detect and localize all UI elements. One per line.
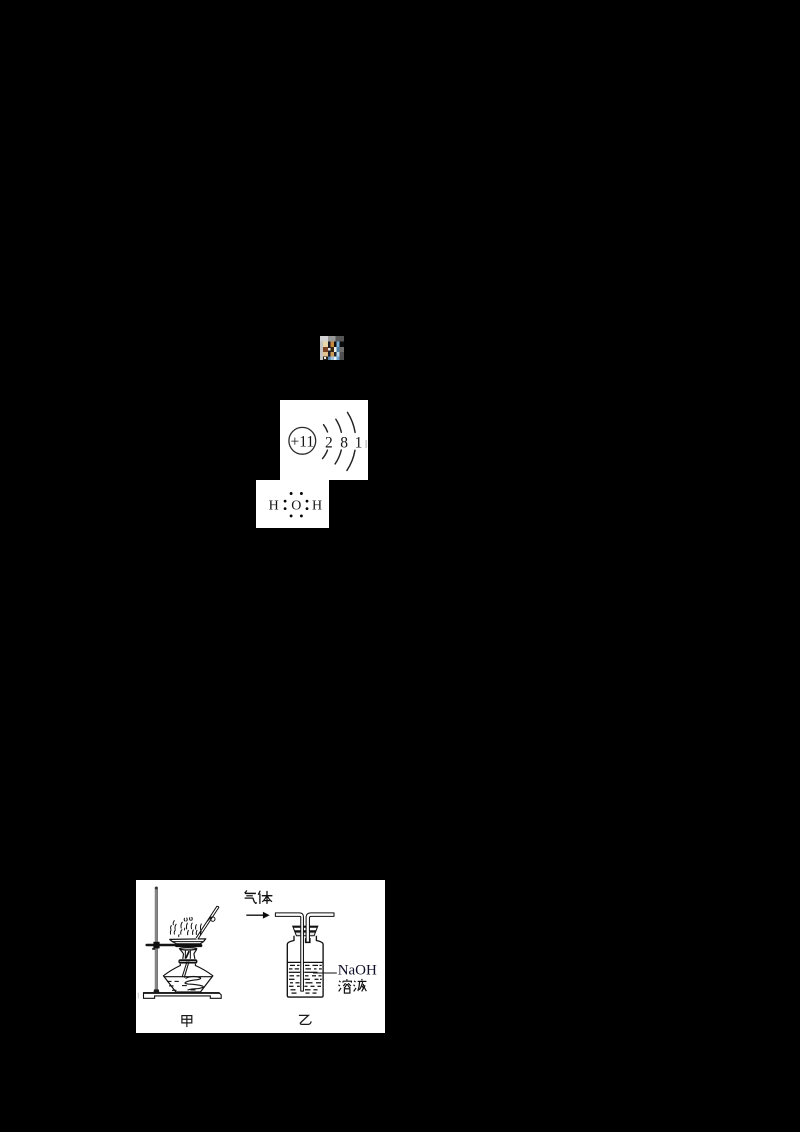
label jia bbox=[181, 1015, 191, 1027]
gas bottle body bbox=[287, 935, 323, 996]
experiment apparatus box bbox=[136, 880, 385, 1033]
rongye glyph rong bbox=[338, 979, 351, 993]
lone pair bottom bbox=[289, 514, 302, 517]
alcohol lamp body bbox=[163, 963, 213, 991]
iron stand pole bbox=[154, 886, 157, 992]
sodium atom structure diagram box bbox=[280, 400, 368, 480]
svg-text:H: H bbox=[311, 498, 321, 513]
bonding pair left bbox=[283, 499, 286, 509]
evaporating dish bbox=[169, 938, 205, 943]
NaOH solution surface bbox=[287, 961, 322, 963]
iron ring bbox=[175, 944, 202, 947]
iron stand base bbox=[143, 989, 221, 998]
clamp bbox=[146, 941, 175, 949]
outlet stub tip bbox=[305, 938, 310, 943]
wick tube bbox=[182, 961, 189, 977]
steam wisps bbox=[170, 917, 201, 936]
water Lewis structure box bbox=[256, 480, 329, 528]
gas arrow bbox=[246, 911, 269, 918]
lamp collar bbox=[178, 959, 197, 963]
gas label ti bbox=[258, 890, 272, 903]
svg-text:+11: +11 bbox=[290, 433, 314, 450]
gas label qi bbox=[244, 890, 256, 903]
svg-text:NaOH: NaOH bbox=[337, 962, 376, 978]
bonding pair right bbox=[305, 499, 308, 509]
outlet tube (short) bbox=[306, 912, 334, 941]
svg-text:1: 1 bbox=[355, 435, 363, 452]
alcohol surface bbox=[164, 975, 212, 977]
nucleus circle bbox=[289, 427, 316, 454]
svg-text:O: O bbox=[291, 498, 301, 513]
lone pair top bbox=[289, 492, 302, 495]
faint artifact near right edge bbox=[365, 440, 367, 448]
solution dashes bbox=[288, 965, 321, 993]
label leader line bbox=[313, 972, 337, 974]
svg-text:2: 2 bbox=[325, 435, 333, 452]
shell arc 2 bbox=[335, 419, 341, 464]
stopper bbox=[292, 926, 317, 936]
svg-text:H: H bbox=[268, 498, 278, 513]
faint smudge near box left edge bbox=[137, 992, 138, 998]
wick scribble in alcohol bbox=[185, 976, 203, 990]
shell arc 3 bbox=[347, 412, 355, 470]
burner spool under ring bbox=[179, 947, 196, 958]
svg-text:8: 8 bbox=[340, 435, 348, 452]
rongye glyph ye bbox=[353, 978, 366, 991]
label yi bbox=[298, 1015, 310, 1024]
shell arc 1 bbox=[323, 425, 328, 459]
inlet tube (long, into liquid) bbox=[275, 912, 303, 990]
small color icon bbox=[320, 336, 344, 360]
glass rod bbox=[196, 906, 218, 939]
alcohol dashes bbox=[167, 981, 196, 990]
